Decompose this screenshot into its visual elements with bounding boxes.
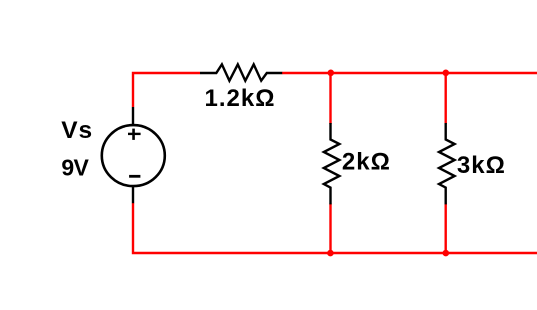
wire top: node A to node B (331, 72, 446, 74)
junction node D (443, 250, 450, 257)
wire bottom-left: source bottom to node C (133, 203, 330, 253)
svg-text:2kΩ: 2kΩ (342, 148, 391, 175)
wire bottom: node C to node D (330, 252, 445, 254)
wire: node B down to R3 top (445, 73, 447, 124)
resistor R1 1.2k horizontal (200, 64, 282, 80)
junction node C (327, 250, 334, 257)
wire: node A down to R2 top (329, 73, 331, 124)
voltage source Vs 9V (102, 107, 165, 203)
wire: R3 bottom to node D (445, 204, 447, 254)
svg-text:1.2kΩ: 1.2kΩ (205, 85, 276, 112)
resistor R2 2k vertical (324, 123, 340, 204)
junction node A (328, 70, 335, 77)
wire: R2 bottom to node C (329, 204, 331, 254)
junction node B (443, 70, 450, 77)
svg-text:Vs: Vs (61, 117, 93, 144)
wire top: R1 right lead to node A (282, 72, 331, 74)
svg-text:9V: 9V (61, 155, 89, 181)
wire top: node B to right edge (446, 72, 537, 74)
resistor R3 3k vertical (439, 123, 455, 204)
wire top-left: source top to R1 left (133, 73, 200, 107)
wire bottom: node D to right edge (446, 252, 537, 254)
svg-text:3kΩ: 3kΩ (457, 152, 506, 179)
